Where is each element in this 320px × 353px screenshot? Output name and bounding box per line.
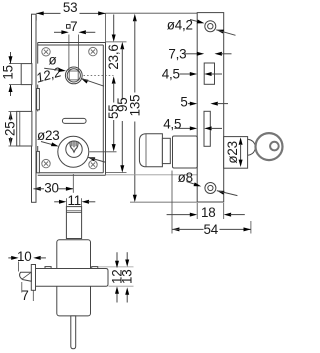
latch slot — [204, 63, 214, 84]
dim 135 — [106, 13, 198, 202]
svg-text:18: 18 — [201, 205, 216, 220]
dim 25 — [3, 112, 18, 146]
key shoulder waist — [248, 139, 256, 155]
screw bottom-left — [42, 159, 50, 167]
screw hole bottom — [205, 183, 216, 194]
svg-text:15: 15 — [1, 65, 16, 80]
deadbolt — [17, 111, 32, 146]
dim 15 extension lines — [9, 63, 21, 65]
outer cylinder — [224, 137, 248, 169]
svg-text:53: 53 — [63, 0, 78, 15]
dim 18 — [167, 203, 245, 220]
screw top-left — [42, 48, 50, 56]
dim 55 — [106, 83, 121, 152]
svg-text:7: 7 — [21, 288, 28, 303]
svg-text:13: 13 — [120, 269, 135, 284]
svg-text:54: 54 — [204, 222, 219, 237]
dim 15 — [1, 52, 16, 96]
svg-text:ø23: ø23 — [37, 128, 59, 143]
faceplate edge view — [197, 13, 224, 202]
callout 4,5 upper — [162, 67, 222, 82]
svg-text:25: 25 — [3, 121, 18, 136]
svg-text:7,3: 7,3 — [168, 46, 186, 61]
svg-text:23,6: 23,6 — [106, 44, 121, 69]
dim 13 — [120, 252, 135, 302]
dim diameter 23 (right) — [225, 137, 242, 167]
svg-text:4,5: 4,5 — [163, 117, 181, 132]
oval slot — [62, 118, 86, 123]
thumbturn knob — [139, 134, 162, 167]
mounting plate — [36, 269, 109, 287]
svg-text:ø23: ø23 — [225, 141, 240, 163]
follower (square spindle hub) — [65, 67, 82, 84]
svg-text:ø4,2: ø4,2 — [167, 18, 193, 33]
dim 95 — [106, 42, 130, 173]
cylinder centerline ext — [90, 151, 117, 153]
knob neck — [162, 138, 170, 163]
stem — [66, 207, 81, 239]
svg-text:7: 7 — [70, 19, 77, 34]
key bow hole — [270, 142, 279, 151]
callout diameter 8 — [178, 170, 238, 196]
callout 4,5 lower — [163, 117, 222, 132]
faceplate front strip — [32, 14, 37, 202]
dim 7 (cam) — [21, 282, 33, 303]
tail rod — [71, 316, 76, 349]
cam bar — [31, 265, 35, 291]
lock case outline (double border) — [38, 43, 106, 176]
dim 25 extension lines — [9, 110, 17, 112]
dim 23,6 — [106, 15, 121, 84]
screw hole top — [205, 21, 216, 32]
dim 30 — [33, 174, 73, 195]
callout diameter 23 (cylinder) — [37, 128, 106, 162]
plate tabs — [45, 267, 51, 270]
dim 10 — [8, 249, 46, 271]
latch bolt — [21, 64, 32, 85]
dim 54 — [172, 171, 251, 238]
bolt guide tab upper — [37, 89, 40, 110]
screw bottom-right — [89, 160, 97, 168]
key bow — [256, 133, 283, 160]
cam wedge — [20, 272, 32, 281]
callout diameter 12,2 — [34, 52, 104, 86]
dim 53 — [36, 0, 105, 43]
dim 12 — [109, 252, 124, 302]
cylinder plug circle — [66, 141, 82, 157]
svg-text:4,5: 4,5 — [162, 67, 180, 82]
dim 12 / 13 extension lines — [98, 266, 134, 268]
svg-text:11: 11 — [67, 193, 81, 208]
case shadow line to right drawing — [106, 174, 198, 176]
keyway profile — [70, 141, 78, 153]
svg-text:5: 5 — [180, 95, 187, 110]
callout 5 — [180, 95, 228, 110]
svg-text:135: 135 — [128, 95, 143, 117]
cylinder body upper — [57, 240, 91, 316]
bolt guide tab lower — [37, 151, 40, 172]
escutcheon — [173, 136, 198, 168]
screw top-right — [89, 47, 97, 55]
deadbolt slot — [204, 111, 210, 146]
dim 11 — [54, 193, 95, 208]
callout 7,3 — [168, 46, 231, 61]
svg-text:30: 30 — [44, 180, 59, 195]
dim square 7 — [54, 19, 95, 71]
callout diameter 4,2 — [167, 18, 236, 36]
follower centerline dotted — [84, 75, 114, 77]
cylinder outer circle — [58, 136, 89, 167]
svg-text:10: 10 — [17, 249, 32, 264]
